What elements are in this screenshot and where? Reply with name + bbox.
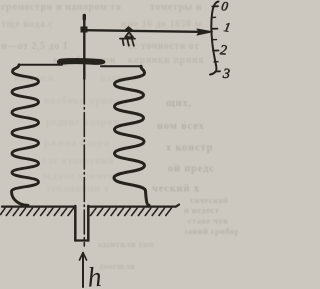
- fulcrum triangle: [125, 32, 133, 37]
- fulcrum base line: [120, 38, 135, 40]
- pressure arrow head: [80, 253, 87, 261]
- svg-text:ческий х: ческий х: [152, 184, 200, 195]
- svg-text:ном всех: ном всех: [157, 121, 205, 132]
- pointer arrowhead: [197, 29, 213, 35]
- minor tick: [212, 16, 216, 18]
- svg-text:громострн и напором татометры: громострн и напором татометры и: [1, 2, 202, 13]
- faint bleed-through text block top: [1, 2, 204, 66]
- inlet tube right wall: [87, 206, 90, 241]
- svg-text:доогшли: доогшли: [99, 261, 135, 271]
- push cap bar on top plate: [57, 59, 104, 65]
- svg-text:еле изменений: еле изменений: [42, 156, 114, 167]
- svg-text:3: 3: [221, 67, 230, 82]
- centerline (axis): [83, 80, 85, 246]
- svg-text:и недост: и недост: [184, 205, 220, 215]
- inlet tube left wall: [74, 206, 77, 241]
- faint lower-right text block: [98, 195, 240, 271]
- svg-text:ой предс: ой предс: [168, 164, 215, 175]
- svg-text:2: 2: [220, 43, 228, 58]
- svg-text:ржима напри: ржима напри: [44, 138, 110, 149]
- bellows right wall: [114, 66, 149, 205]
- push rod: [83, 16, 85, 79]
- svg-text:теплинями х: теплинями х: [46, 184, 109, 195]
- dial scale arc: [210, 2, 219, 75]
- ground line left: [2, 206, 75, 208]
- faint right column text: [152, 98, 215, 195]
- ground hatching right: [91, 208, 172, 215]
- pivot pin blob: [81, 27, 88, 33]
- rod top knob: [83, 16, 86, 20]
- scale tick 0: [212, 5, 218, 7]
- fulcrum hatching: [123, 39, 134, 46]
- bellows top plate left segment: [19, 64, 62, 66]
- paper background: [0, 0, 238, 289]
- ink drawing: [1, 0, 232, 287]
- ground hatching left: [1, 208, 74, 215]
- svg-text:х констр: х констр: [166, 143, 213, 154]
- svg-text:кынтили тип: кынтили тип: [98, 239, 154, 249]
- faint mid-page bleed-through text: [14, 73, 138, 195]
- scale tick 1: [212, 28, 218, 30]
- bellows top plate right segment: [101, 65, 141, 67]
- scale tick 3: [216, 70, 221, 72]
- svg-text:редине напряж: редине напряж: [46, 117, 121, 128]
- svg-text:h: h: [86, 262, 102, 289]
- ground line right: [90, 205, 180, 207]
- inlet tube bottom: [75, 239, 88, 241]
- svg-text:гической: гической: [190, 195, 228, 205]
- svg-text:ставе чув: ставе чув: [188, 216, 228, 226]
- scale tick 2: [213, 50, 219, 52]
- lever arm (pointer beam): [84, 30, 199, 32]
- svg-text:заний срибор: заний срибор: [184, 226, 238, 236]
- bellows left wall: [12, 65, 39, 206]
- fulcrum pin above lever: [125, 27, 134, 31]
- pressure arrow h shaft: [82, 253, 84, 287]
- minor tick: [214, 61, 218, 63]
- svg-text:щих,: щих,: [166, 98, 192, 109]
- svg-text:задача примен: задача примен: [42, 171, 114, 182]
- minor tick: [213, 39, 217, 41]
